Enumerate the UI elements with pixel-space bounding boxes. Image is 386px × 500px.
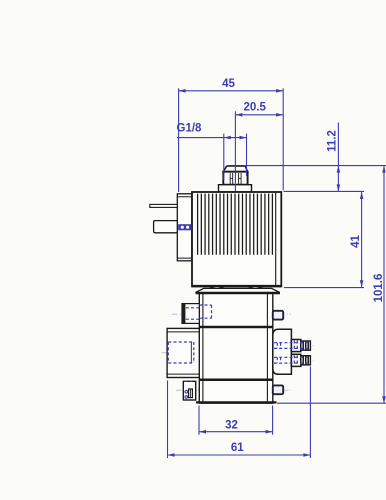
svg-text:101.6: 101.6 <box>373 274 385 303</box>
svg-text:G1/8: G1/8 <box>177 123 203 135</box>
svg-text:20.5: 20.5 <box>244 102 267 114</box>
svg-text:11.2: 11.2 <box>327 130 339 152</box>
svg-text:41: 41 <box>350 235 362 248</box>
svg-text:32: 32 <box>225 419 238 431</box>
svg-text:45: 45 <box>222 78 235 90</box>
svg-text:61: 61 <box>231 442 244 454</box>
